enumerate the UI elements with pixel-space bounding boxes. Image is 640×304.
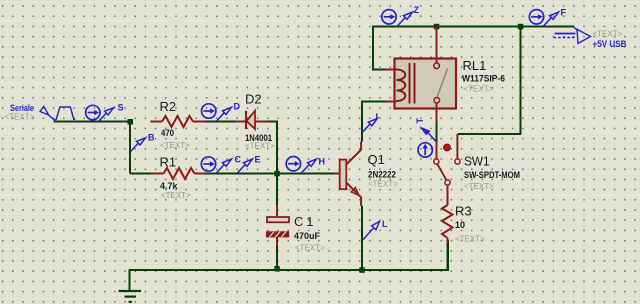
svg-text:I: I xyxy=(376,112,379,122)
transistor Q1 xyxy=(334,142,398,207)
svg-text:L: L xyxy=(382,219,388,229)
node E junction xyxy=(274,171,280,177)
terminal +5V USB xyxy=(554,27,627,49)
voltage probe B xyxy=(131,133,156,152)
svg-text:RL1: RL1 xyxy=(463,58,487,73)
svg-text:<TEXT>: <TEXT> xyxy=(455,235,485,244)
svg-text:<TEXT>: <TEXT> xyxy=(160,141,190,150)
current probe S-line xyxy=(86,105,100,119)
current probe F-line xyxy=(529,10,543,24)
svg-text:R1: R1 xyxy=(160,155,177,170)
voltage probe H xyxy=(302,157,326,173)
svg-text:T: T xyxy=(415,118,425,124)
pulse generator symbol xyxy=(55,107,75,119)
svg-text:R2: R2 xyxy=(160,99,177,114)
current probe SW1 xyxy=(418,143,432,157)
node +5V branch xyxy=(518,24,524,30)
svg-text:10: 10 xyxy=(455,220,465,230)
wire D2 to corner and down to node E xyxy=(268,122,278,206)
svg-text:C: C xyxy=(235,155,242,165)
resistor R2 xyxy=(151,99,206,150)
svg-text:+5V USB: +5V USB xyxy=(593,39,627,49)
svg-text:<TEXT>: <TEXT> xyxy=(464,85,494,94)
wire +5V down to SW1 right contact xyxy=(458,27,521,135)
svg-text:Seriale: Seriale xyxy=(10,103,34,113)
voltage probe S xyxy=(99,103,124,122)
wire R1 left xyxy=(130,173,152,175)
current probe C-line xyxy=(201,157,215,171)
svg-text:4.7k: 4.7k xyxy=(160,181,179,191)
node at Seriale/R2/R1 junction xyxy=(128,119,134,125)
wire relay common to SW1 left contact (green part) xyxy=(436,123,438,142)
voltage probe I xyxy=(362,112,378,132)
current probe H-line xyxy=(286,157,300,171)
voltage probe Z xyxy=(398,5,420,26)
node Q1 emitter to rail xyxy=(359,267,365,273)
wire Q1 emitter down to ground rail xyxy=(361,206,363,270)
svg-text:SW1: SW1 xyxy=(464,154,490,169)
svg-text:2N2222: 2N2222 xyxy=(368,170,396,180)
terminal Seriale input xyxy=(5,103,56,122)
switch SW1 xyxy=(434,134,520,191)
svg-text:H: H xyxy=(319,157,326,167)
current probe Z-line xyxy=(382,10,396,24)
relay RL1 xyxy=(386,27,505,124)
svg-text:S: S xyxy=(118,103,124,113)
svg-text:<TEXT>: <TEXT> xyxy=(245,142,275,151)
svg-text:W117SIP-6: W117SIP-6 xyxy=(462,74,505,84)
svg-text:<TEXT>: <TEXT> xyxy=(464,182,494,191)
voltage probe E xyxy=(238,155,261,173)
svg-text:<TEXT>: <TEXT> xyxy=(5,113,35,122)
svg-text:Z: Z xyxy=(414,5,420,15)
svg-text:470uF: 470uF xyxy=(294,231,321,241)
svg-text:D2: D2 xyxy=(245,92,262,107)
svg-text:D: D xyxy=(234,102,241,112)
svg-text:F: F xyxy=(561,8,567,18)
svg-text:Q1: Q1 xyxy=(368,152,385,167)
svg-text:E: E xyxy=(255,155,261,165)
voltage probe D xyxy=(217,102,241,122)
svg-text:B: B xyxy=(148,133,155,143)
voltage probe T xyxy=(415,118,436,142)
wire ground rail xyxy=(130,240,449,291)
resistor R1 xyxy=(152,155,205,201)
node C1 to rail xyxy=(274,266,280,272)
current probe D-line xyxy=(202,104,216,118)
resistor R3 xyxy=(442,185,485,270)
wire R1 right to node E xyxy=(205,173,278,175)
voltage probe F xyxy=(544,8,567,26)
wire relay coil top to +5V rail xyxy=(373,27,574,70)
voltage probe C xyxy=(217,155,242,173)
wire C1 bottom to rail xyxy=(276,246,278,270)
wire Q1 collector up to relay coil xyxy=(362,102,386,142)
svg-text:<TEXT>: <TEXT> xyxy=(368,180,398,189)
svg-text:<TEXT>: <TEXT> xyxy=(593,30,623,39)
capacitor C1 xyxy=(266,205,325,253)
wire node E to Q1 base xyxy=(277,173,334,175)
svg-text:<TEXT>: <TEXT> xyxy=(161,191,191,200)
switch actuator dot xyxy=(444,144,451,151)
wire R2 right to D2 xyxy=(205,121,238,123)
wire vertical from node S down to R1 xyxy=(129,122,131,174)
ground xyxy=(119,291,141,302)
svg-text:SW-SPDT-MOM: SW-SPDT-MOM xyxy=(464,170,520,180)
svg-text:470: 470 xyxy=(161,128,174,138)
voltage probe L xyxy=(363,219,388,240)
node relay contact top xyxy=(434,24,440,30)
wire Seriale input to junction xyxy=(54,121,130,123)
svg-text:R3: R3 xyxy=(455,204,472,219)
diode D2 xyxy=(235,92,275,151)
svg-text:<TEXT>: <TEXT> xyxy=(295,244,325,253)
